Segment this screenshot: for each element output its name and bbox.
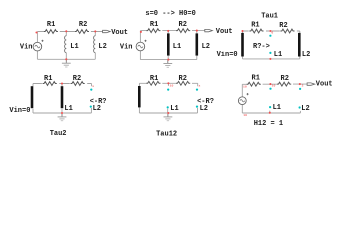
svg-text:<-R?: <-R? — [197, 98, 214, 106]
svg-text:L1: L1 — [273, 104, 281, 112]
svg-text:L1: L1 — [170, 105, 178, 113]
svg-text:6: 6 — [271, 30, 273, 34]
svg-text:x: x — [199, 84, 201, 88]
svg-text:R1: R1 — [47, 21, 55, 29]
svg-text:L1: L1 — [70, 43, 78, 51]
svg-text:R1: R1 — [150, 21, 158, 29]
svg-text:Vout: Vout — [111, 29, 128, 37]
svg-text:Tau1: Tau1 — [261, 12, 278, 20]
svg-text:L2: L2 — [98, 43, 106, 51]
svg-text:Vin=0: Vin=0 — [9, 107, 30, 115]
svg-text:R?->: R?-> — [253, 43, 270, 51]
svg-text:10: 10 — [170, 84, 174, 88]
svg-text:2: 2 — [302, 84, 304, 88]
svg-text:R2: R2 — [73, 75, 81, 83]
svg-text:Vin: Vin — [20, 44, 33, 52]
svg-text:L2: L2 — [93, 105, 101, 113]
svg-text:H12 = 1: H12 = 1 — [254, 120, 283, 128]
svg-text:L1: L1 — [64, 105, 72, 113]
svg-text:R2: R2 — [279, 22, 287, 30]
svg-text:R1: R1 — [252, 75, 260, 83]
svg-text:R1: R1 — [251, 22, 259, 30]
svg-text:L1: L1 — [173, 43, 181, 51]
svg-text:L2: L2 — [200, 105, 208, 113]
svg-text:s=0 --> H0=0: s=0 --> H0=0 — [145, 10, 195, 18]
svg-text:Vin: Vin — [120, 44, 133, 52]
svg-text:10: 10 — [243, 85, 247, 89]
svg-text:R2: R2 — [79, 21, 87, 29]
svg-text:R1: R1 — [150, 75, 158, 83]
svg-text:Tau12: Tau12 — [156, 130, 177, 138]
svg-text:R2: R2 — [179, 75, 187, 83]
svg-text:Vout: Vout — [316, 80, 333, 88]
svg-text:R2: R2 — [281, 75, 289, 83]
svg-text:L1: L1 — [274, 51, 282, 59]
svg-text:L2: L2 — [301, 105, 309, 113]
svg-text:Vout: Vout — [216, 28, 233, 36]
svg-text:Vin=0: Vin=0 — [217, 51, 238, 59]
svg-text:L2: L2 — [302, 51, 310, 59]
svg-text:L2: L2 — [202, 43, 210, 51]
svg-text:x: x — [92, 84, 94, 88]
svg-text:<-R?: <-R? — [90, 98, 107, 106]
svg-text:10: 10 — [272, 84, 276, 88]
svg-text:R1: R1 — [44, 75, 52, 83]
svg-text:10: 10 — [243, 113, 247, 117]
svg-text:R2: R2 — [179, 21, 187, 29]
svg-text:Tau2: Tau2 — [50, 130, 67, 138]
